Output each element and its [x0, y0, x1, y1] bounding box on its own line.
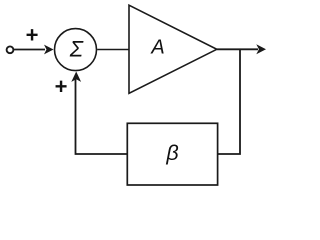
svg-text:+: + [26, 23, 39, 48]
svg-text:+: + [55, 74, 68, 99]
svg-text:β: β [165, 141, 178, 165]
svg-text:A: A [150, 36, 164, 58]
svg-text:Σ: Σ [69, 37, 84, 62]
